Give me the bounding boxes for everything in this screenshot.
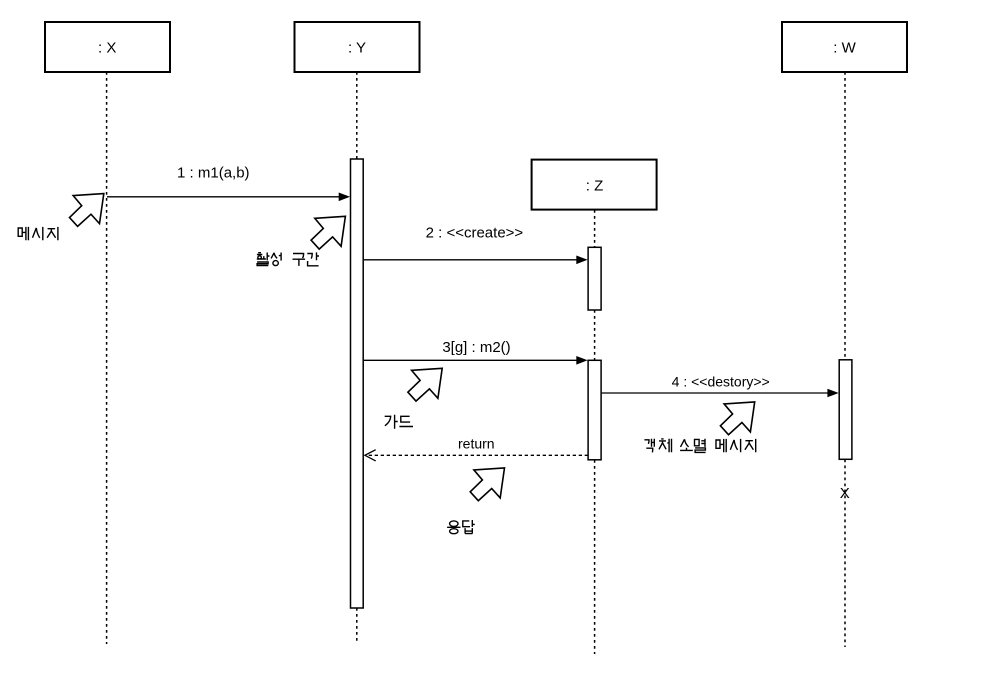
lifeline W (below bar)	[844, 460, 846, 648]
object box :X	[45, 22, 170, 72]
cursor icon C4 (destroy)	[720, 402, 754, 435]
lifeline Y (below bar)	[356, 608, 358, 644]
svg-text:: W: : W	[833, 40, 856, 57]
lifeline Y (above bar)	[356, 72, 358, 159]
cursor icon C2 (activation)	[311, 216, 345, 249]
activation bar W	[839, 360, 852, 460]
svg-text:: Z: : Z	[586, 178, 604, 195]
return message wire (dashed)	[366, 454, 588, 456]
svg-text:X: X	[840, 485, 850, 502]
activation bar Z2	[588, 360, 601, 460]
message 4 arrowhead	[827, 389, 838, 398]
cursor icon C5 (reply)	[470, 468, 504, 501]
svg-text:2 : <<create>>: 2 : <<create>>	[426, 225, 524, 242]
svg-text:4 : <<destory>>: 4 : <<destory>>	[672, 373, 770, 389]
object box :Y	[295, 22, 420, 72]
lifeline W (above bar)	[844, 72, 846, 360]
svg-text:return: return	[458, 436, 495, 452]
message 1 arrowhead	[339, 193, 350, 202]
svg-text:3[g] : m2(): 3[g] : m2()	[442, 339, 510, 356]
activation bar Y	[351, 159, 364, 608]
korean label "활성 구간"	[257, 252, 319, 266]
svg-text:1 : m1(a,b): 1 : m1(a,b)	[177, 165, 250, 182]
lifeline Z (below bar2)	[594, 460, 596, 654]
lifeline Z (above bar1)	[594, 210, 596, 247]
message 2 wire	[364, 259, 584, 261]
return arrowhead (open)	[365, 450, 376, 461]
message 4 wire	[602, 392, 835, 394]
svg-text:: Y: : Y	[348, 40, 366, 57]
cursor icon C3 (guard)	[408, 368, 442, 401]
message 1 wire	[107, 196, 347, 198]
object box :W	[782, 22, 907, 72]
object box :Z	[532, 160, 657, 210]
korean label "객체 소멸 메시지"	[644, 439, 755, 453]
lifeline X	[106, 72, 108, 644]
activation bar Z1	[588, 247, 601, 310]
lifeline Z (between bars)	[594, 310, 596, 360]
cursor icon C1 (message)	[70, 194, 104, 227]
korean label "응답"	[447, 520, 475, 534]
korean label "가드"	[385, 415, 413, 429]
message 3 wire	[364, 359, 584, 361]
korean label "메시지"	[18, 227, 58, 240]
message 2 arrowhead	[576, 256, 587, 265]
svg-text:: X: : X	[98, 40, 116, 57]
message 3 arrowhead	[576, 356, 587, 365]
